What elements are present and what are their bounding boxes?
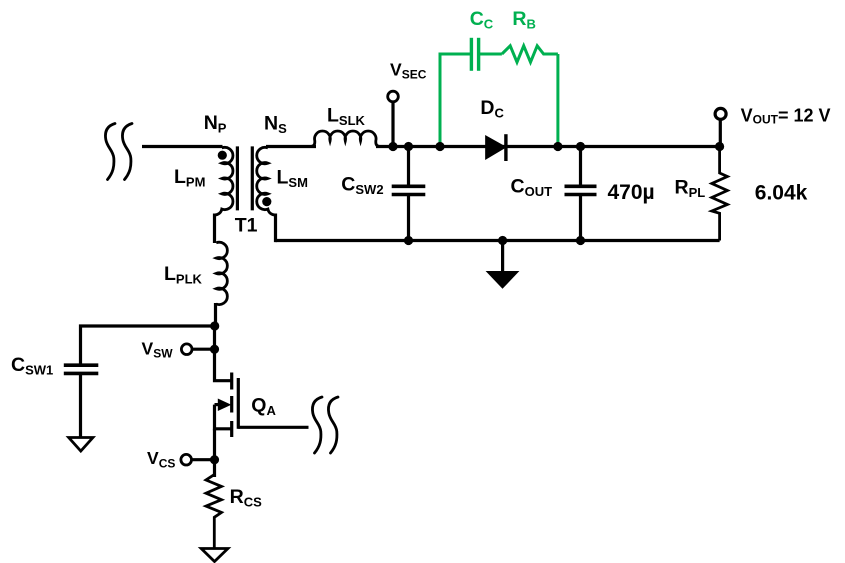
wire green right vertical (556, 54, 559, 147)
svg-text:VCS: VCS (147, 448, 175, 470)
wire primary winding to LPLK (213, 214, 216, 244)
wire CSW1 horizontal (81, 326, 215, 365)
wire top rail secondary (376, 145, 720, 148)
svg-text:NP: NP (204, 112, 227, 136)
svg-text:NS: NS (264, 113, 287, 137)
svg-text:DC: DC (480, 97, 504, 121)
polarity dot primary (218, 151, 227, 160)
svg-text:RCS: RCS (230, 486, 262, 510)
svg-text:6.04k: 6.04k (755, 181, 808, 204)
wire primary top (142, 145, 223, 148)
inductor LPLK (216, 242, 227, 304)
resistor RPL (712, 147, 728, 241)
node VSW junction (210, 345, 219, 354)
capacitor COUT (565, 147, 597, 241)
wire source of mosfet (215, 405, 232, 429)
inductor LPM primary winding (215, 147, 233, 215)
diode DC (486, 134, 506, 161)
svg-text:470µ: 470µ (608, 181, 655, 204)
ground CSW1 (open) (69, 438, 93, 452)
node CSW2 top junction (404, 142, 413, 151)
resistor RCS (206, 475, 222, 549)
wire secondary top to LSLK (266, 145, 316, 148)
svg-text:QA: QA (251, 394, 276, 418)
svg-text:LPLK: LPLK (164, 263, 203, 287)
svg-text:CSW1: CSW1 (11, 354, 53, 378)
svg-text:LSLK: LSLK (327, 104, 366, 128)
svg-text:COUT: COUT (511, 176, 553, 200)
node VCS junction (210, 455, 219, 464)
node green left junction (435, 142, 444, 151)
node LPLK CSW1 junction (210, 321, 219, 330)
svg-text:VSEC: VSEC (390, 59, 427, 81)
svg-text:RPL: RPL (675, 177, 706, 201)
wire gate (238, 426, 308, 429)
svg-text:VOUT= 12 V: VOUT= 12 V (741, 106, 831, 127)
capacitor CSW2 (392, 147, 426, 241)
resistor RB (502, 46, 558, 62)
svg-text:T1: T1 (235, 215, 258, 237)
wire source down to VCS (213, 429, 216, 477)
svg-text:VSW: VSW (142, 339, 174, 361)
node CSW2 bottom junction (404, 236, 413, 245)
node COUT top junction (576, 142, 585, 151)
capacitor CC (471, 38, 502, 71)
svg-text:LPM: LPM (174, 166, 205, 190)
terminal VCS (192, 458, 215, 461)
transformer core bars T1 (236, 146, 239, 210)
ground secondary (filled) (486, 241, 520, 289)
break squiggle gate (312, 397, 338, 453)
wire secondary bottom lead (276, 214, 278, 241)
mosfet arrow (215, 399, 232, 412)
node COUT bottom junction (576, 236, 585, 245)
svg-text:CC: CC (470, 8, 494, 32)
terminal VSEC (391, 101, 394, 147)
wire bottom rail (276, 239, 720, 242)
terminal VOUT (719, 119, 722, 147)
svg-text:LSM: LSM (277, 166, 308, 190)
capacitor CSW1 (64, 365, 99, 438)
terminal VSW (192, 348, 215, 351)
wire drain vertical (215, 326, 232, 381)
break squiggle primary input (105, 124, 132, 180)
svg-text:RB: RB (512, 8, 535, 32)
inductor LSM secondary winding (257, 147, 275, 215)
svg-text:CSW2: CSW2 (341, 174, 383, 198)
node green right junction (553, 142, 562, 151)
ground RCS (open) (201, 549, 228, 562)
wire green left vertical (439, 54, 442, 147)
node VSEC junction (388, 142, 397, 151)
node ground junction (498, 236, 507, 245)
polarity dot secondary (262, 197, 271, 206)
inductor LSLK (310, 131, 380, 146)
transistor QA mosfet (232, 373, 239, 438)
wire LPLK lead (214, 303, 217, 328)
node VOUT junction (715, 142, 724, 151)
wire green top left (439, 53, 472, 56)
